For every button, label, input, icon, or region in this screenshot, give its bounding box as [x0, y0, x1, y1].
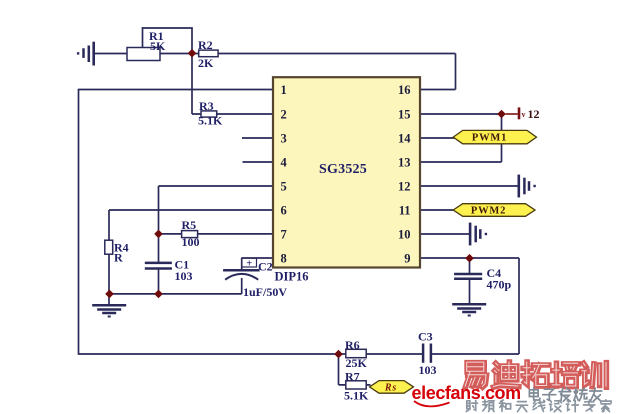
svg-text:14: 14: [398, 132, 411, 146]
svg-text:R6: R6: [345, 338, 360, 352]
svg-text:R3: R3: [199, 99, 214, 113]
svg-text:SG3525: SG3525: [319, 162, 367, 177]
svg-text:103: 103: [419, 363, 437, 377]
svg-text:PWM1: PWM1: [472, 133, 507, 144]
svg-text:5K: 5K: [150, 39, 166, 53]
svg-text:2K: 2K: [198, 56, 214, 70]
svg-text:15: 15: [398, 108, 411, 122]
svg-text:8: 8: [281, 252, 287, 266]
svg-text:1uF/50V: 1uF/50V: [243, 285, 287, 299]
svg-text:10: 10: [398, 228, 411, 242]
svg-text:5.1K: 5.1K: [198, 114, 223, 128]
svg-text:13: 13: [398, 156, 411, 170]
svg-text:1: 1: [281, 83, 287, 97]
svg-text:470p: 470p: [487, 278, 512, 292]
svg-text:4: 4: [281, 156, 288, 170]
svg-text:elecfans.com: elecfans.com: [412, 383, 521, 403]
svg-text:100: 100: [182, 235, 200, 249]
svg-text:11: 11: [399, 204, 411, 218]
svg-text:5: 5: [281, 180, 287, 194]
svg-text:v: v: [522, 110, 526, 119]
svg-text:R: R: [114, 251, 123, 265]
svg-text:9: 9: [404, 252, 410, 266]
svg-text:2: 2: [281, 108, 287, 122]
svg-text:12: 12: [528, 107, 540, 121]
svg-text:16: 16: [398, 83, 411, 97]
svg-text:5.1K: 5.1K: [344, 389, 369, 403]
svg-text:103: 103: [175, 269, 193, 283]
svg-text:PWM2: PWM2: [471, 206, 506, 217]
svg-text:3: 3: [281, 132, 287, 146]
svg-text:12: 12: [398, 180, 411, 194]
svg-text:7: 7: [281, 228, 287, 242]
svg-text:+: +: [246, 258, 252, 269]
svg-text:DIP16: DIP16: [275, 270, 309, 284]
svg-text:C2: C2: [258, 260, 273, 274]
svg-text:6: 6: [281, 204, 287, 218]
svg-text:R2: R2: [198, 38, 213, 52]
svg-text:Rs: Rs: [384, 383, 397, 394]
svg-text:R5: R5: [182, 218, 197, 232]
svg-text:C3: C3: [418, 330, 433, 344]
svg-text:R7: R7: [345, 370, 360, 384]
svg-text:25K: 25K: [346, 356, 368, 370]
